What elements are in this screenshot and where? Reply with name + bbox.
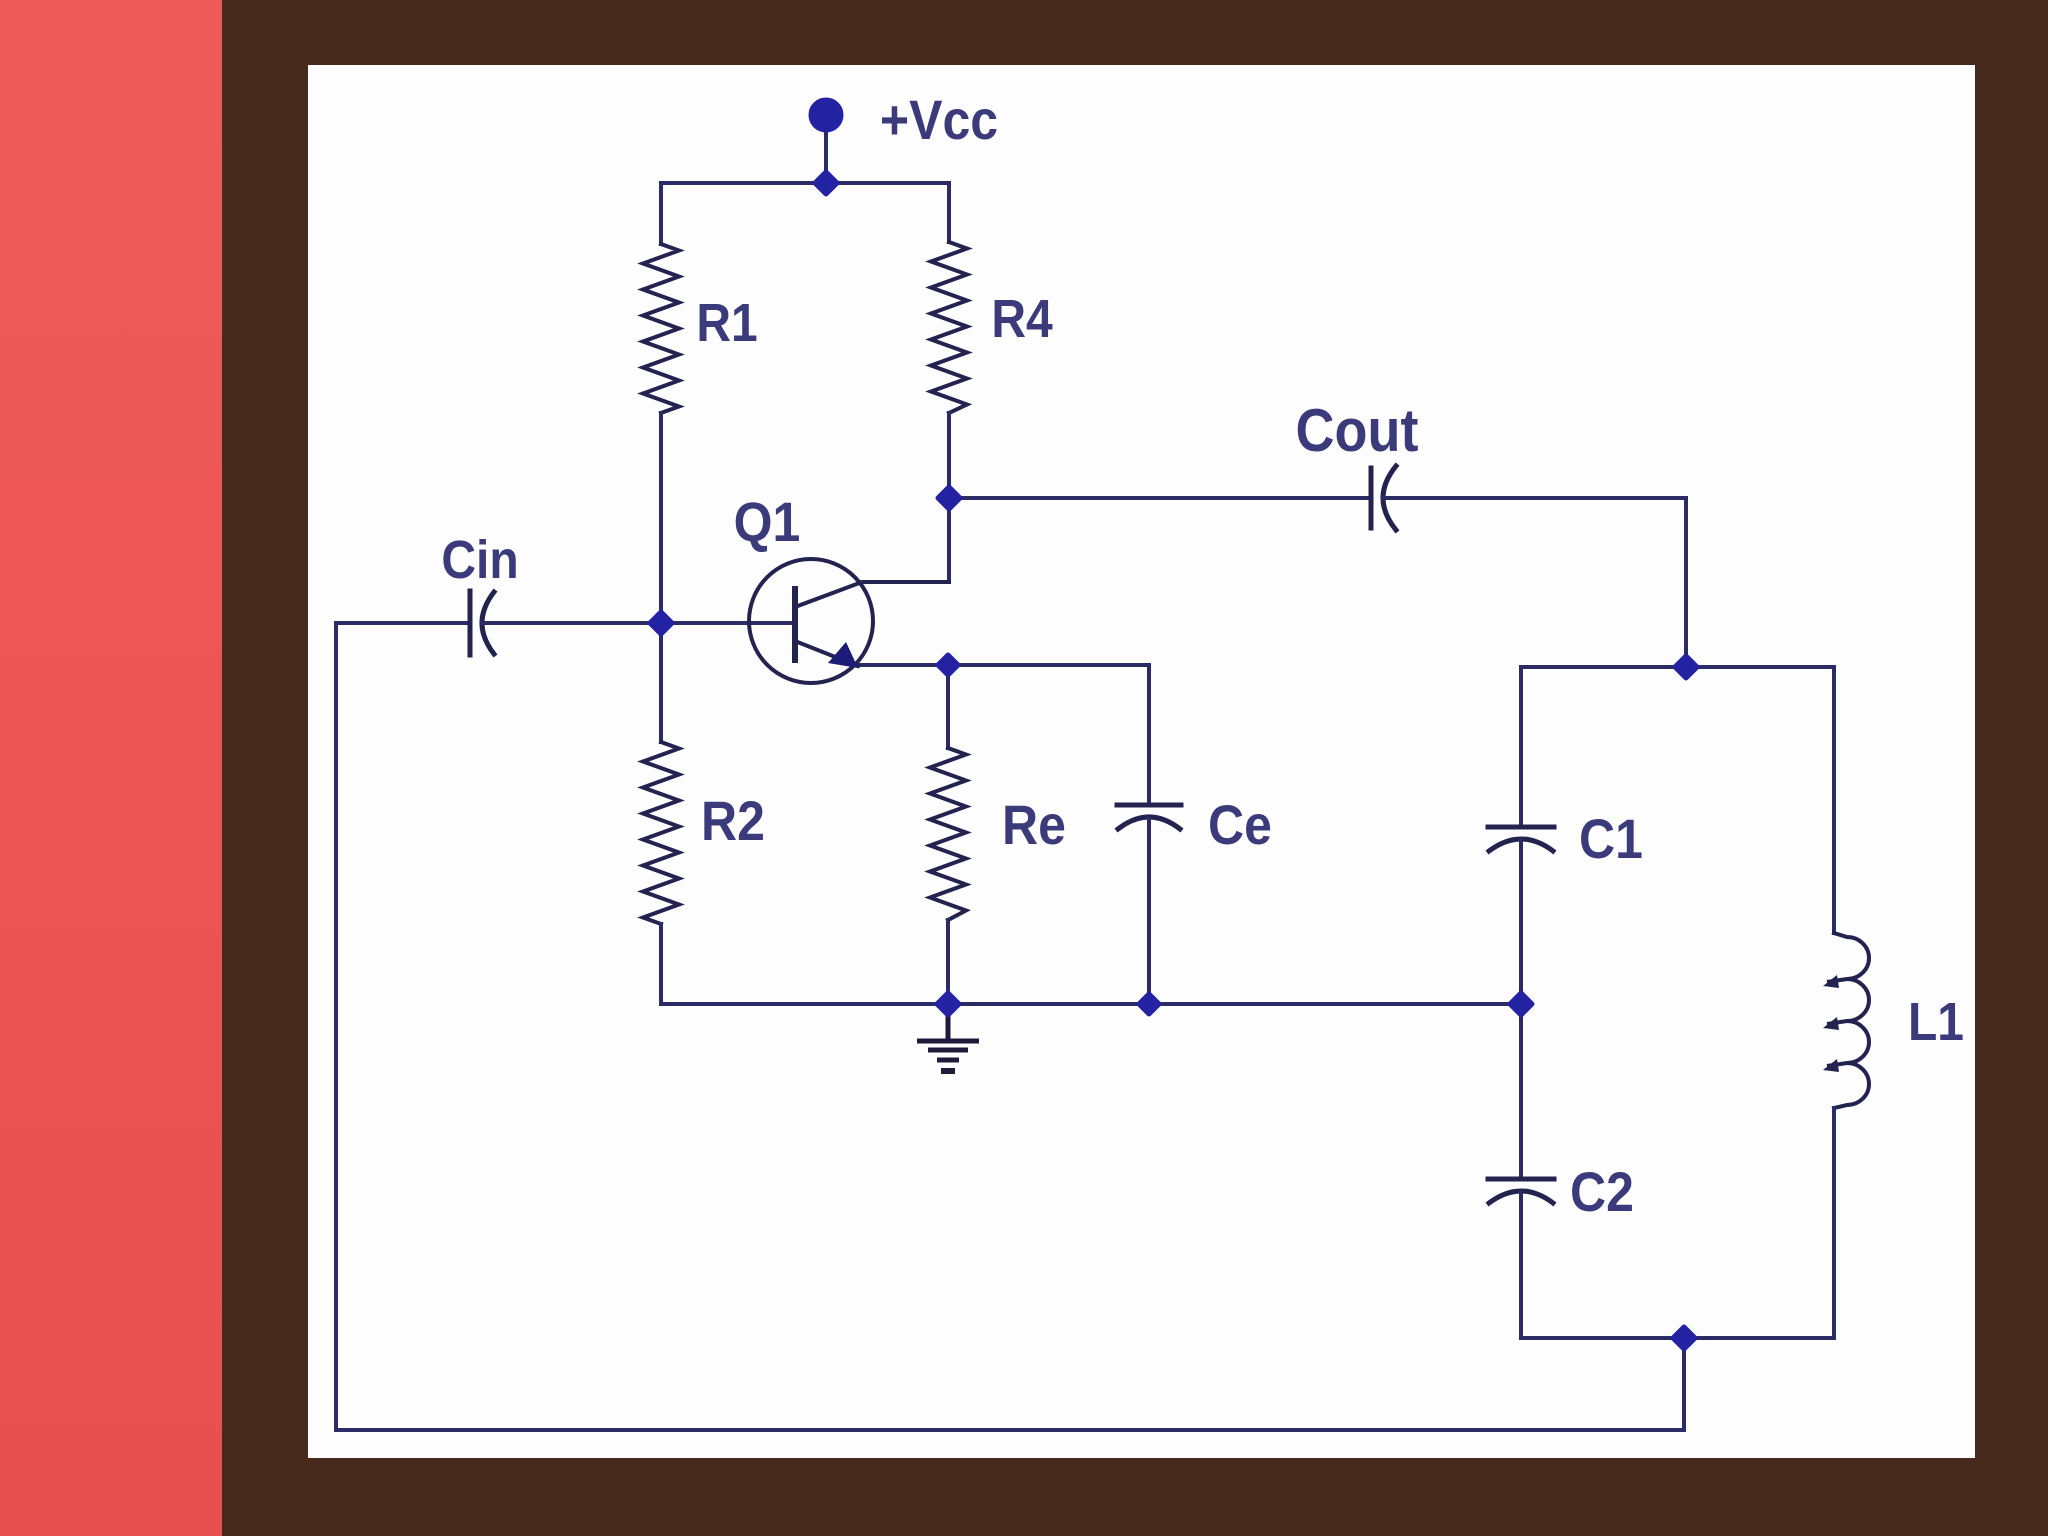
svg-text:R2: R2 bbox=[701, 790, 765, 852]
capacitor Cout bbox=[1371, 466, 1396, 530]
wire tank bottom stub bbox=[1682, 1338, 1686, 1430]
wire collector node to Cout bbox=[949, 496, 1368, 500]
svg-text:Cin: Cin bbox=[441, 529, 518, 589]
svg-text:Re: Re bbox=[1002, 794, 1066, 856]
transistor Q1 bbox=[749, 559, 949, 683]
wire L1 bottom lead bbox=[1832, 1108, 1836, 1338]
wire ground rail bbox=[661, 1002, 1521, 1006]
node +Vcc terminal bbox=[811, 100, 841, 130]
svg-text:Cout: Cout bbox=[1296, 397, 1419, 465]
svg-text:R1: R1 bbox=[696, 292, 757, 352]
svg-text:L1: L1 bbox=[1908, 991, 1964, 1051]
wire emitter row bbox=[856, 663, 1149, 667]
wire base lead bbox=[661, 621, 795, 625]
wire C1 top lead bbox=[1519, 667, 1523, 825]
svg-text:C1: C1 bbox=[1579, 808, 1643, 870]
svg-text:+Vcc: +Vcc bbox=[880, 89, 998, 151]
transistor Q1 emitter arrow bbox=[828, 642, 858, 668]
capacitor C2 bbox=[1488, 1179, 1554, 1203]
wire R1 bottom lead bbox=[659, 413, 663, 623]
node tank bottom junction bbox=[1673, 1327, 1695, 1349]
wire C1 bottom lead bbox=[1519, 841, 1523, 1004]
capacitor Cin bbox=[470, 591, 494, 655]
inductor L1 bbox=[1823, 933, 1869, 1108]
wire R2 bottom lead bbox=[659, 924, 663, 1004]
node emitter junction bbox=[938, 655, 958, 675]
wire C2 bottom lead bbox=[1519, 1193, 1523, 1338]
wire bottom feedback rail bbox=[336, 1428, 1684, 1432]
node ground junction bbox=[937, 993, 959, 1015]
wire Ce drop bbox=[1147, 665, 1151, 803]
white schematic panel bbox=[308, 65, 1975, 1458]
wire tank top rail bbox=[1521, 665, 1834, 669]
node C1 C2 midpoint junction bbox=[1510, 993, 1532, 1015]
wire R4 top lead bbox=[947, 183, 951, 242]
wire C2 top lead bbox=[1519, 1004, 1523, 1177]
wire input to Cin bbox=[336, 621, 467, 625]
node top rail junction bbox=[815, 172, 837, 194]
node Ce bottom junction bbox=[1139, 994, 1159, 1014]
wire Cout drop bbox=[1684, 498, 1688, 667]
wire R2 top lead bbox=[659, 623, 663, 742]
svg-text:C2: C2 bbox=[1570, 1161, 1634, 1223]
wire top rail bbox=[661, 181, 949, 185]
wire R4 bottom lead / collector riser bbox=[947, 413, 951, 582]
svg-text:Q1: Q1 bbox=[734, 491, 801, 553]
resistor Re bbox=[930, 748, 966, 920]
svg-text:Ce: Ce bbox=[1208, 794, 1272, 856]
wire Cout to tank bbox=[1383, 496, 1686, 500]
wire tank bottom rail bbox=[1521, 1336, 1834, 1340]
resistor R4 bbox=[931, 242, 967, 413]
wire R1 top lead bbox=[659, 183, 663, 244]
wire left feedback riser bbox=[334, 623, 338, 1430]
wire Cin to base node bbox=[482, 621, 661, 625]
node tank top junction bbox=[1675, 656, 1697, 678]
node collector junction bbox=[938, 487, 960, 509]
capacitor Ce bbox=[1117, 805, 1181, 829]
capacitor C1 bbox=[1488, 827, 1554, 851]
ground bbox=[917, 1004, 979, 1071]
wire Re top lead bbox=[946, 665, 950, 748]
resistor R1 bbox=[643, 244, 679, 413]
wire L1 top lead bbox=[1832, 667, 1836, 933]
node base junction bbox=[650, 612, 672, 634]
wire Vcc stub bbox=[824, 115, 828, 183]
resistor R2 bbox=[643, 742, 679, 924]
svg-text:R4: R4 bbox=[991, 288, 1053, 348]
wire Re bottom lead bbox=[946, 920, 950, 1004]
wire Ce bottom lead bbox=[1147, 819, 1151, 1004]
